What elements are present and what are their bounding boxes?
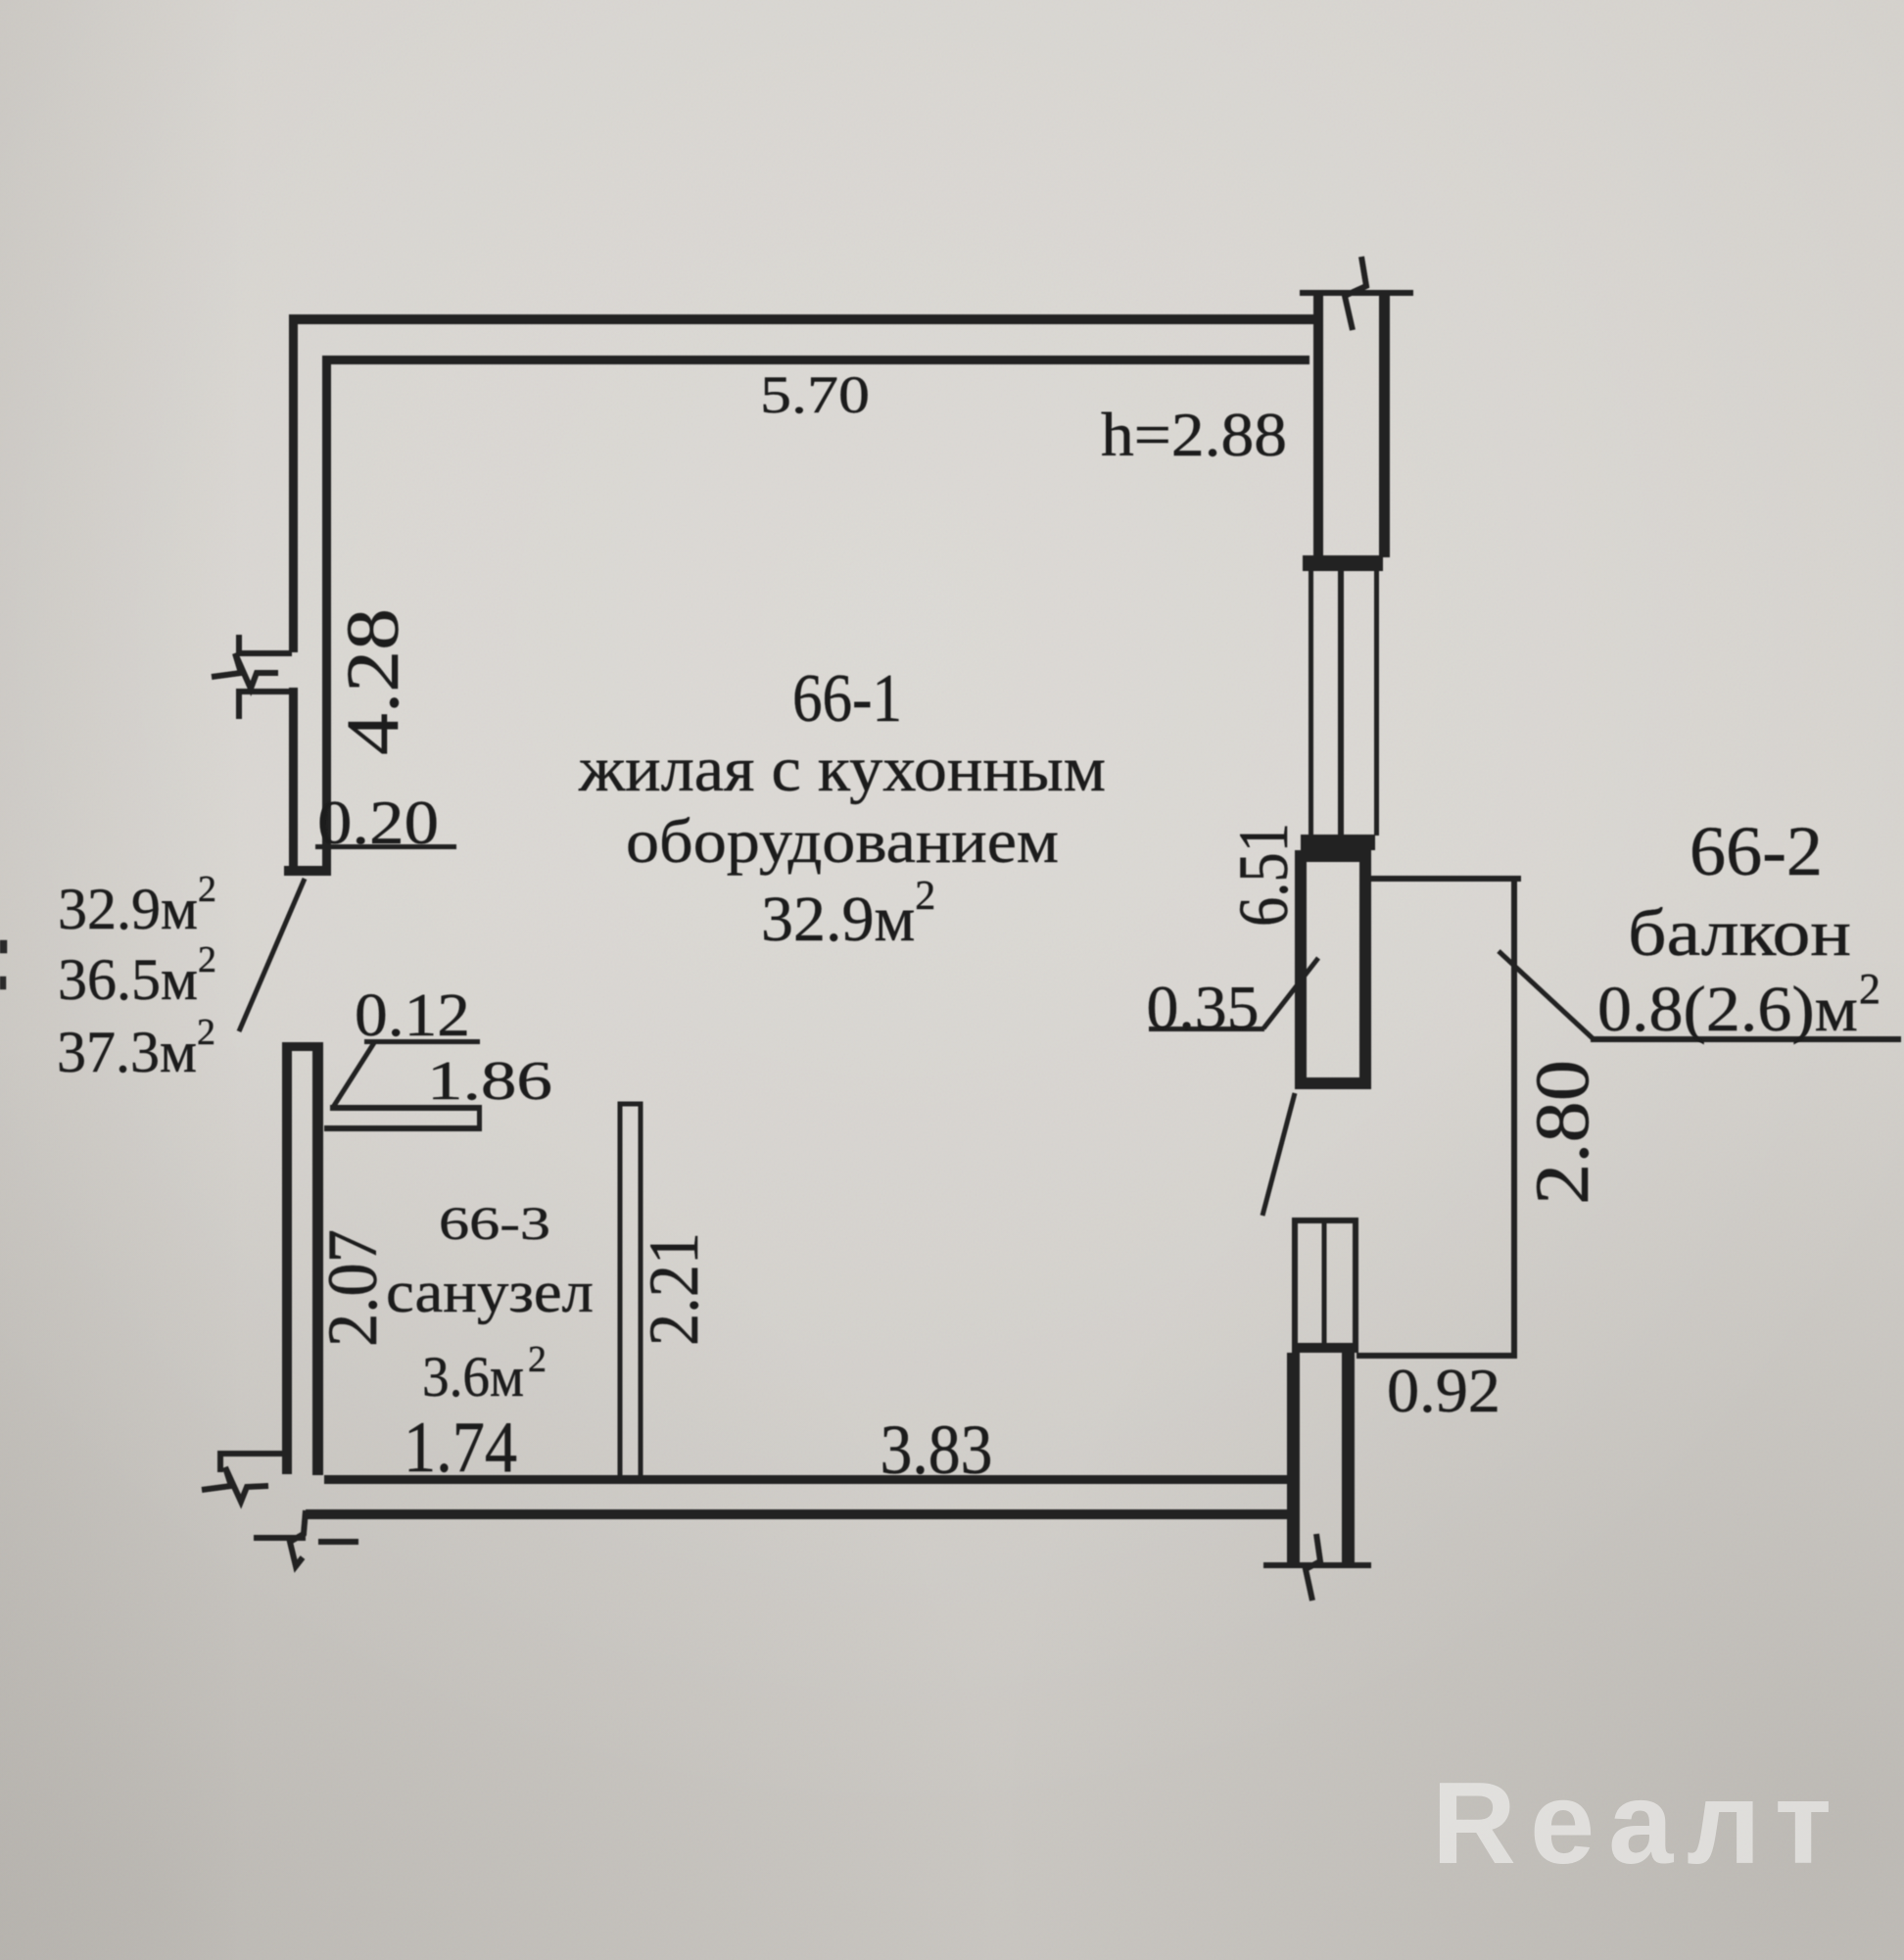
wall W5: lower right exterior left line: [1287, 1353, 1300, 1565]
wall W4: solid pier between window and balcony door: [1295, 850, 1371, 1089]
svg-text:32.9м2: 32.9м2: [761, 874, 935, 955]
wall W7: sanuzel left wall inner line: [312, 1042, 323, 1475]
wall W5: bottom end cap: [1263, 1562, 1371, 1568]
wall W5: lower right exterior right line: [1342, 1353, 1355, 1565]
svg-text:3.6м: 3.6м: [422, 1345, 524, 1409]
wall W2: bottom end cap: [284, 866, 331, 876]
svg-text:66-3: 66-3: [439, 1198, 550, 1250]
svg-text:0.20: 0.20: [317, 788, 439, 857]
balcony door open leaf diagonal: [1262, 1093, 1295, 1216]
svg-text:2: 2: [1859, 965, 1880, 1013]
balcony bottom edge line: [1357, 1353, 1517, 1359]
svg-text:5.70: 5.70: [760, 365, 870, 424]
leader line from 0.12 to door sill: [332, 1041, 375, 1109]
wall W3: upper solid segment right line: [1379, 293, 1390, 557]
break symbol top-left wall: [212, 635, 292, 719]
svg-text:36.5м2: 36.5м2: [58, 939, 216, 1012]
wall W1: top exterior inner line: [322, 356, 1309, 364]
sanuzel door sill rectangle: [324, 1105, 482, 1131]
balcony top edge line: [1371, 876, 1521, 882]
balcony door window frame: [1295, 1220, 1356, 1350]
dimension 0.20 underline: [315, 844, 456, 849]
dimension 0.12 underline: [364, 1039, 480, 1044]
wall W7: sanuzel left wall outer line: [282, 1042, 292, 1474]
svg-text:1.74: 1.74: [404, 1408, 517, 1488]
svg-text:3.83: 3.83: [881, 1410, 993, 1489]
leader line to area labels: [239, 879, 305, 1031]
svg-text:2.80: 2.80: [1519, 1060, 1604, 1205]
svg-text:оборудованием: оборудованием: [626, 806, 1059, 876]
svg-text:2.07: 2.07: [313, 1229, 392, 1347]
balcony right edge line: [1511, 876, 1517, 1356]
window W3a: outer pane line: [1309, 571, 1313, 836]
dimension 0.35 underline: [1149, 1027, 1264, 1031]
wall W3: upper solid segment left line: [1313, 293, 1323, 557]
wall W6: bottom exterior inner line: [324, 1475, 1287, 1484]
svg-text:санузел: санузел: [386, 1260, 594, 1324]
window W3a: middle pane line: [1338, 571, 1344, 836]
svg-text:2.21: 2.21: [635, 1232, 713, 1346]
svg-text:66-2: 66-2: [1690, 812, 1823, 890]
svg-text:66-1: 66-1: [792, 661, 902, 737]
svg-text:0.92: 0.92: [1387, 1356, 1500, 1425]
wall W2: left exterior outer line upper part: [289, 314, 298, 652]
break symbol bottom-left corner: [202, 1454, 358, 1566]
svg-text:4.28: 4.28: [332, 608, 414, 755]
leader line from balcony area label: [1499, 951, 1593, 1038]
svg-text:0.12: 0.12: [355, 982, 470, 1049]
break symbol bottom-right wall: [1306, 1534, 1320, 1601]
svg-text:Reaлт: Reaлт: [1432, 1758, 1845, 1888]
svg-text:2: 2: [528, 1339, 547, 1380]
wall W1: top exterior outer line: [289, 314, 1313, 324]
window W3a: bottom cap: [1301, 835, 1375, 850]
svg-text:32.9м2: 32.9м2: [58, 869, 216, 941]
svg-text:0.35: 0.35: [1147, 973, 1260, 1042]
svg-text:37.3м2: 37.3м2: [57, 1012, 215, 1084]
wall W2: left exterior inner line: [322, 356, 331, 870]
window W3a: top cap: [1303, 555, 1383, 571]
window W3a: inner pane line: [1374, 571, 1379, 836]
break symbol top-right wall: [1345, 257, 1366, 330]
wall W2: left exterior outer line lower part: [289, 688, 298, 874]
svg-text:балкон: балкон: [1628, 895, 1851, 970]
svg-text:жилая с кухонным: жилая с кухонным: [578, 734, 1106, 805]
svg-text:h=2.88: h=2.88: [1101, 400, 1287, 469]
svg-text:0.8(2.6)м: 0.8(2.6)м: [1597, 974, 1858, 1045]
wall W3: right exterior, top end cap with break: [1300, 290, 1413, 296]
wall W7: top end cap: [282, 1042, 323, 1051]
svg-text:6.51: 6.51: [1224, 823, 1303, 927]
wall W6: bottom exterior outer line: [306, 1509, 1287, 1519]
leader line from 0.35 to pier: [1263, 958, 1318, 1028]
stray mark at left edge: [0, 940, 7, 953]
partition wall sanuzel/room: [620, 1104, 641, 1478]
dimension 0.8(2.6) underline: [1591, 1036, 1901, 1042]
svg-text:1.86: 1.86: [427, 1051, 552, 1112]
